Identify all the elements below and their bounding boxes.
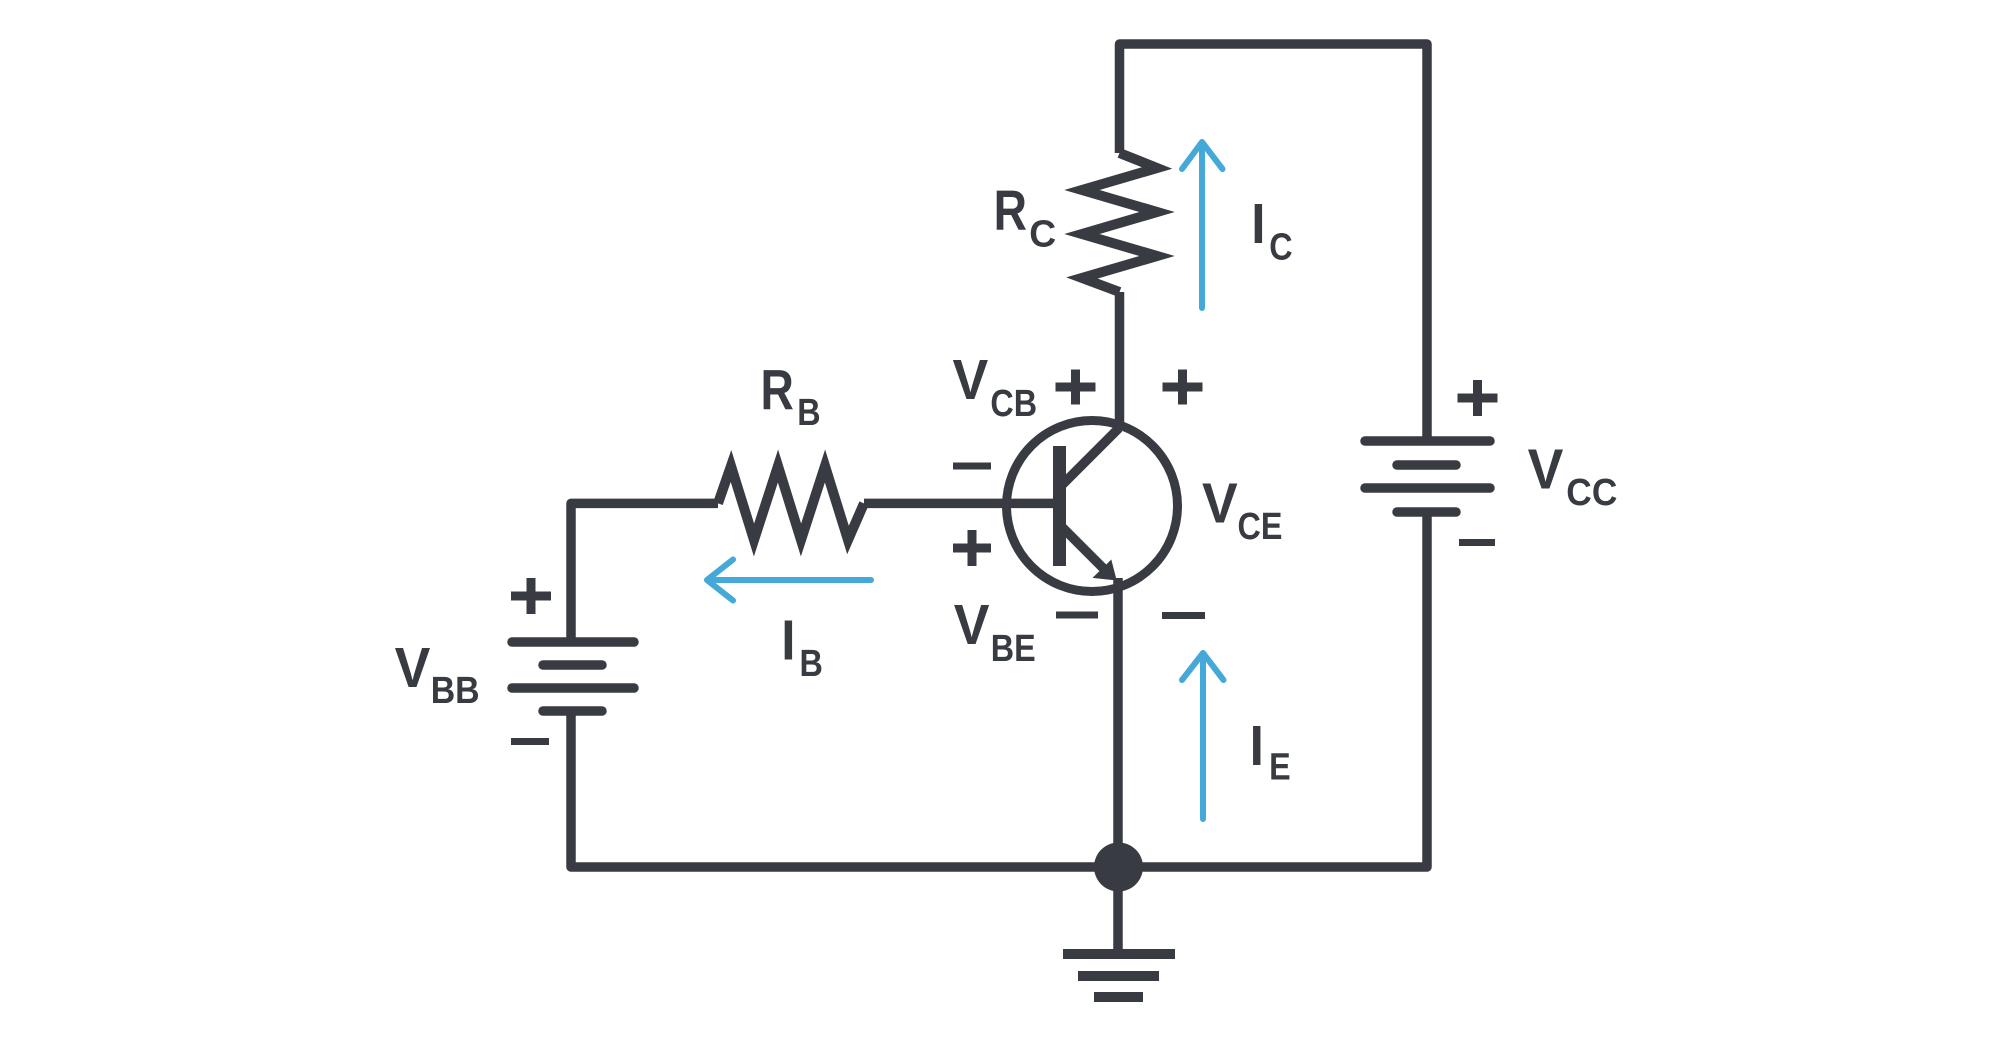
battery VCC plate short bottom xyxy=(1397,507,1456,517)
svg-text:BB: BB xyxy=(431,668,480,711)
svg-text:B: B xyxy=(797,392,820,434)
plus sign VCB (left of collector wire) xyxy=(1056,370,1096,405)
svg-text:BE: BE xyxy=(991,627,1036,669)
svg-text:B: B xyxy=(800,642,823,684)
svg-text:V: V xyxy=(1528,437,1564,501)
wire: base wire from RB to transistor base xyxy=(864,499,1053,509)
wire: VBB negative terminal down, bottom rail, up to VCC negative terminal xyxy=(571,512,1427,867)
minus sign VBB xyxy=(511,738,549,745)
wire: junction node to ground xyxy=(1113,867,1123,959)
resistor RB xyxy=(718,466,864,540)
battery VCC plate long top xyxy=(1365,436,1490,446)
battery VBB plate short xyxy=(543,660,602,670)
svg-text:E: E xyxy=(1269,746,1291,788)
svg-text:V: V xyxy=(953,348,989,412)
svg-text:I: I xyxy=(781,609,795,672)
svg-text:C: C xyxy=(1029,212,1056,254)
svg-text:CC: CC xyxy=(1566,471,1617,513)
wire: emitter to junction node xyxy=(1113,578,1123,867)
ground plate 2 xyxy=(1078,971,1159,981)
current arrow IE xyxy=(1182,653,1224,819)
minus sign VCC xyxy=(1459,539,1495,546)
plus sign VBE (left of base) xyxy=(953,530,991,566)
transistor Q1 collector diagonal xyxy=(1060,428,1119,487)
wire: RC bottom to transistor collector xyxy=(1115,292,1125,429)
svg-text:V: V xyxy=(395,635,431,699)
ground plate 1 xyxy=(1063,949,1175,959)
plus sign VBB xyxy=(511,578,551,614)
svg-text:I: I xyxy=(1250,715,1264,778)
ground plate 3 xyxy=(1094,992,1143,1002)
battery VCC plate short xyxy=(1397,460,1456,470)
transistor Q1 base bar xyxy=(1053,446,1066,566)
transistor Q1 emitter arrowhead xyxy=(1093,560,1117,581)
current arrow IB xyxy=(707,560,871,601)
plus sign VCC xyxy=(1458,380,1498,416)
svg-text:V: V xyxy=(1202,471,1238,535)
svg-text:CB: CB xyxy=(990,382,1037,424)
svg-text:CE: CE xyxy=(1238,506,1283,548)
battery VBB plate short bottom xyxy=(543,706,602,716)
plus sign VCE (right of collector wire) xyxy=(1163,370,1203,405)
battery VBB plate long top xyxy=(512,637,634,647)
minus sign VCB (left of base) xyxy=(953,463,991,470)
current arrow IC xyxy=(1182,142,1223,308)
svg-text:I: I xyxy=(1251,192,1265,255)
transistor Q1 emitter diagonal xyxy=(1060,525,1108,573)
svg-text:R: R xyxy=(994,178,1027,242)
svg-text:V: V xyxy=(954,593,990,657)
svg-text:R: R xyxy=(761,358,794,422)
wire: VBB positive terminal up and right to RB xyxy=(571,503,718,642)
svg-text:C: C xyxy=(1269,226,1292,268)
battery VBB plate long bottom xyxy=(512,683,634,693)
battery VCC plate long bottom xyxy=(1365,483,1490,493)
minus sign VBE (below transistor left) xyxy=(1056,612,1098,619)
node: emitter-ground junction dot xyxy=(1094,843,1143,892)
resistor RC xyxy=(1082,153,1157,292)
transistor Q1 circle xyxy=(1007,421,1178,592)
wire: top rail from RC top to VCC positive terminal xyxy=(1120,44,1428,441)
minus sign VCE (below transistor right) xyxy=(1162,612,1205,619)
